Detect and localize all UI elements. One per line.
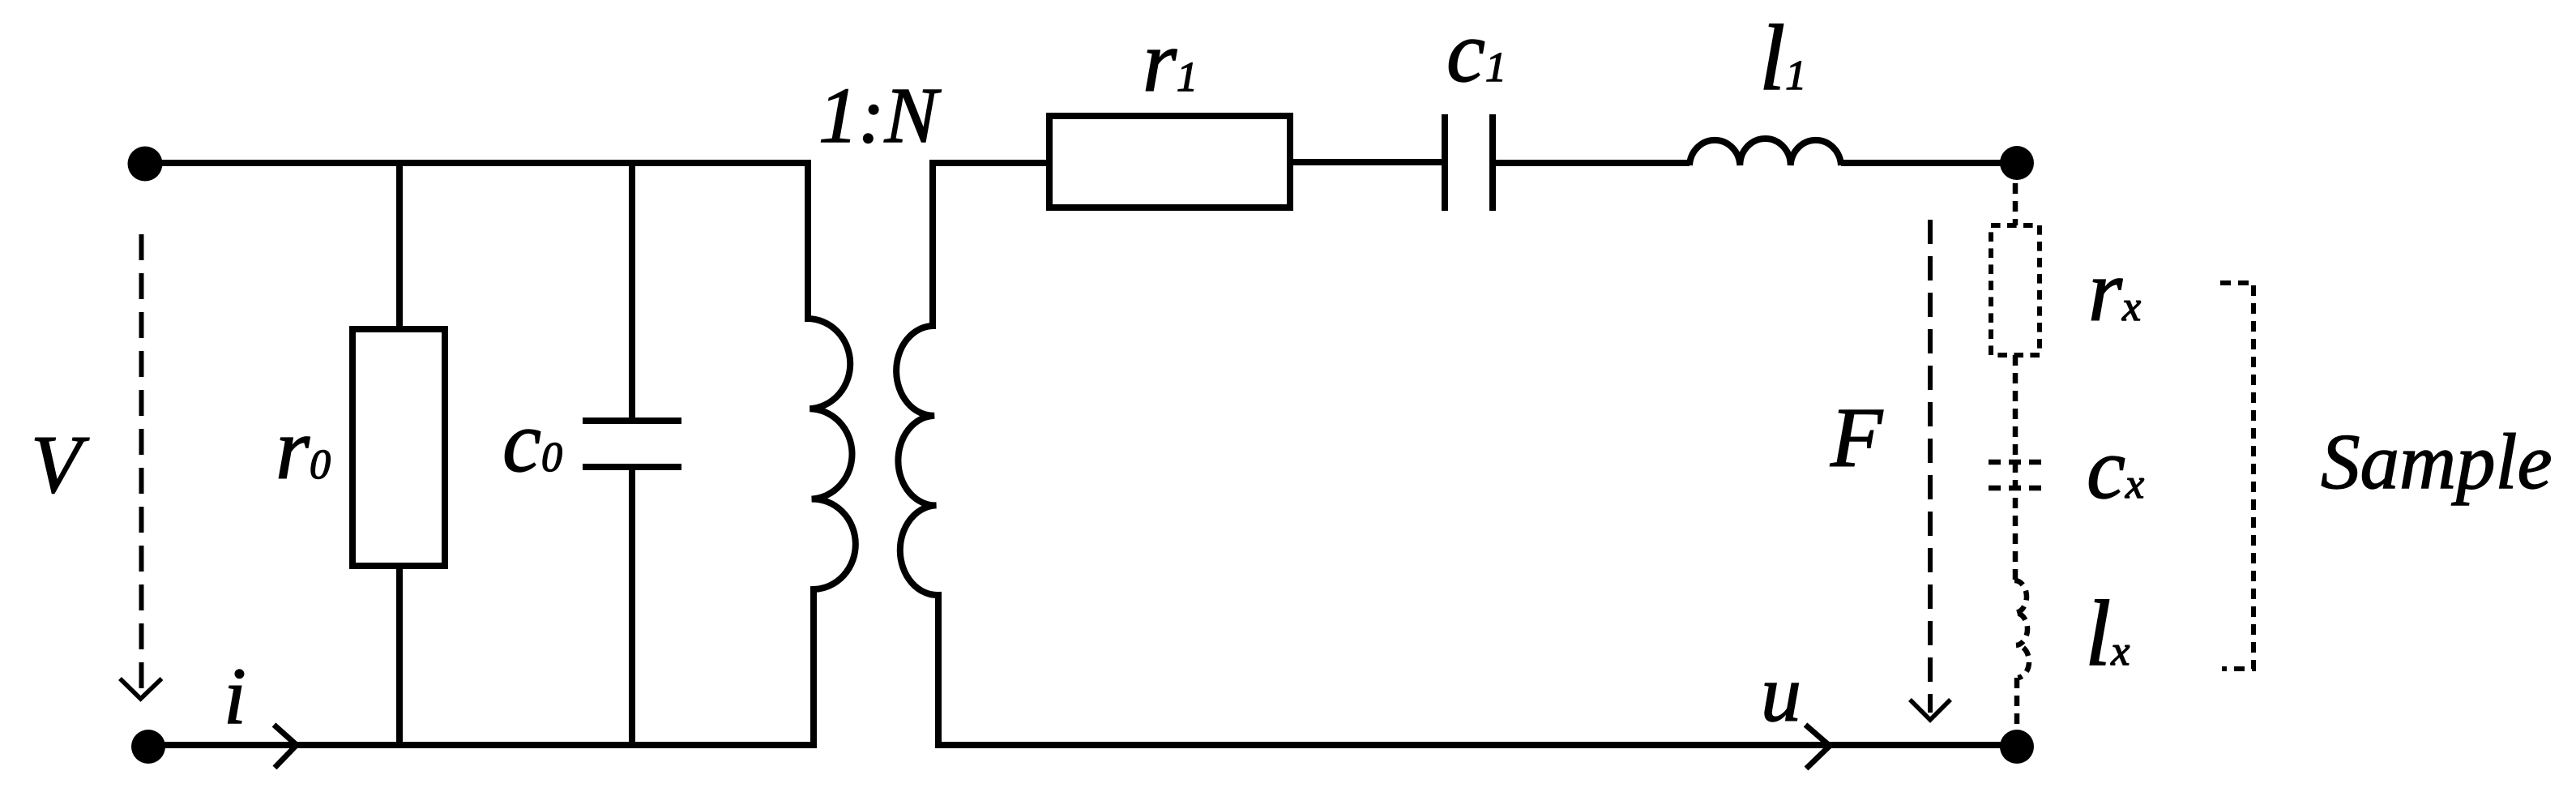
svg-text:l1: l1 xyxy=(1759,6,1806,110)
node bottom-right terminal xyxy=(2000,730,2034,764)
wire rx to cx xyxy=(2013,355,2019,580)
wire c0 branch bottom xyxy=(629,470,635,745)
svg-text:rx: rx xyxy=(2088,243,2141,340)
capacitor cx dashed xyxy=(1989,460,2042,465)
resistor r1 xyxy=(1049,116,1290,208)
arrow V dashed xyxy=(120,234,162,699)
wire top primary xyxy=(145,160,808,166)
inductor l1 xyxy=(1690,139,1841,165)
svg-text:r0: r0 xyxy=(276,401,331,498)
arrow F dashed xyxy=(1910,220,1950,720)
node top-right terminal xyxy=(2000,146,2034,180)
svg-text:cx: cx xyxy=(2087,421,2144,517)
svg-text:u: u xyxy=(1761,649,1801,739)
wire l1 to terminal xyxy=(1841,160,2001,166)
resistor r0 xyxy=(352,329,445,566)
wire secondary top xyxy=(933,160,1046,166)
svg-text:i: i xyxy=(224,651,246,741)
wire c0 branch top xyxy=(629,163,635,417)
svg-text:Sample: Sample xyxy=(2321,418,2553,505)
inductor lx dashed xyxy=(2014,580,2029,678)
wire bottom secondary xyxy=(938,742,2001,748)
bracket sample xyxy=(2220,283,2253,669)
wire r0 branch top xyxy=(396,163,403,332)
wire r0 branch bottom xyxy=(396,563,403,745)
svg-text:c1: c1 xyxy=(1446,4,1506,101)
capacitor c0 xyxy=(583,417,681,424)
transformer primary winding xyxy=(808,160,856,748)
svg-text:F: F xyxy=(1830,390,1884,485)
sample branch dashed xyxy=(1989,183,2042,731)
wire terminal to rx xyxy=(2013,183,2019,225)
arrow i xyxy=(274,725,297,768)
svg-text:lx: lx xyxy=(2085,582,2130,686)
wire r1 to c1 xyxy=(1293,159,1442,165)
wire c1 to l1 xyxy=(1496,160,1690,166)
node top-left terminal xyxy=(128,147,163,182)
node bottom-left terminal xyxy=(131,730,165,764)
svg-text:c0: c0 xyxy=(502,394,562,490)
resistor rx dashed xyxy=(1991,225,2040,355)
svg-text:V: V xyxy=(31,419,90,511)
transformer secondary winding xyxy=(896,160,938,748)
capacitor c1 xyxy=(1442,114,1448,211)
wire bottom primary xyxy=(148,742,817,748)
svg-text:r1: r1 xyxy=(1143,14,1198,110)
arrow u xyxy=(1805,725,1830,769)
wire lx to terminal xyxy=(2014,678,2020,731)
svg-text:1:N: 1:N xyxy=(818,72,942,160)
